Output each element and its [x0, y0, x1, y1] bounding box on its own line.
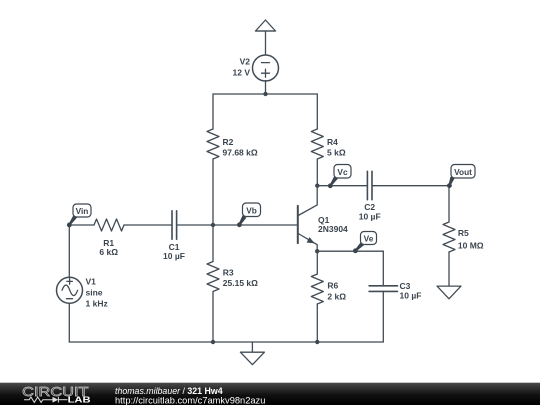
wire R3 top lead: [212, 225, 214, 262]
capacitor C3: [369, 286, 397, 292]
resistor R6: [311, 274, 323, 304]
resistor R3: [207, 262, 219, 292]
wire C3 top lead: [382, 251, 384, 286]
wire R4 bottom lead: [316, 159, 318, 186]
wire left rail bottom: [68, 303, 70, 342]
wire R5 bottom lead: [448, 252, 450, 286]
wire R6 bottom lead: [316, 304, 318, 342]
label Q1 value: [318, 215, 348, 234]
svg-text:5 kΩ: 5 kΩ: [327, 147, 346, 157]
voltage source V1: [57, 277, 83, 303]
label R5 value: [458, 228, 484, 250]
svg-text:V1: V1: [86, 277, 97, 287]
voltage source V2: [253, 55, 279, 81]
wire R6 top lead: [316, 251, 318, 274]
label V2 value: [233, 56, 251, 77]
wire R2 top lead: [212, 94, 214, 129]
wire R1 to C1: [124, 224, 172, 226]
label C2 value: [359, 202, 381, 221]
svg-text:25.15 kΩ: 25.15 kΩ: [223, 278, 258, 288]
wire C3 bottom lead: [382, 291, 384, 342]
svg-text:12 V: 12 V: [233, 67, 251, 77]
wire top rail: [213, 93, 317, 95]
svg-text:6 kΩ: 6 kΩ: [99, 247, 118, 257]
resistor R1: [94, 219, 124, 231]
svg-text:1 kHz: 1 kHz: [86, 299, 108, 309]
svg-text:LAB: LAB: [68, 396, 91, 405]
svg-text:2N3904: 2N3904: [318, 224, 348, 234]
svg-text:10 µF: 10 µF: [400, 291, 422, 301]
node flag Vin: [67, 204, 91, 227]
label R1 value: [99, 238, 118, 257]
svg-text:2 kΩ: 2 kΩ: [327, 292, 346, 302]
label C3 value: [400, 281, 422, 301]
svg-text:10 MΩ: 10 MΩ: [458, 240, 484, 250]
wire bottom rail: [69, 341, 383, 343]
wire V2 to top rail: [265, 81, 267, 95]
svg-text:Ve: Ve: [364, 233, 374, 243]
label R6 value: [327, 280, 346, 301]
wire C2 to Vout: [372, 185, 449, 187]
wire Ve rail: [317, 250, 383, 252]
resistor R4: [311, 129, 323, 159]
svg-text:10 µF: 10 µF: [163, 251, 185, 261]
node junction bottom R3: [211, 340, 215, 344]
svg-text:97.68 kΩ: 97.68 kΩ: [223, 147, 258, 157]
svg-text:sine: sine: [86, 288, 103, 298]
svg-text:Vb: Vb: [246, 205, 257, 215]
label R4 value: [327, 137, 346, 157]
label R2 value: [223, 137, 258, 157]
wire Vc to C2: [317, 185, 367, 187]
wire R2 bottom lead: [212, 159, 214, 225]
resistor R2: [207, 129, 219, 159]
label C1 value: [163, 242, 185, 261]
wire base node to R1: [69, 224, 94, 226]
svg-text:V2: V2: [240, 56, 251, 66]
ground bottom: [240, 342, 264, 365]
svg-text:Vc: Vc: [337, 167, 348, 177]
node junction base: [211, 223, 215, 227]
node junction top: [263, 92, 267, 96]
wire left rail top: [68, 225, 70, 277]
node junction Ve: [315, 249, 319, 253]
wire R3 bottom lead: [212, 292, 214, 343]
node flag Ve: [353, 232, 377, 254]
svg-text:Vout: Vout: [454, 167, 472, 177]
svg-text:C3: C3: [400, 281, 411, 291]
svg-text:R5: R5: [458, 228, 469, 238]
footer bar: [0, 383, 540, 405]
transistor Q1: [298, 186, 317, 252]
power flag V+: [256, 20, 276, 56]
CircuitLab logo squiggle: [24, 397, 67, 403]
node flag Vb: [237, 203, 261, 227]
svg-text:10 µF: 10 µF: [359, 212, 381, 222]
node junction Vout: [447, 184, 451, 188]
svg-text:http://circuitlab.com/c7amkv98: http://circuitlab.com/c7amkv98n2azu: [115, 396, 265, 405]
label R3 value: [223, 268, 258, 288]
resistor R5: [443, 222, 455, 252]
svg-text:R3: R3: [223, 268, 234, 278]
wire R5 top lead: [448, 186, 450, 222]
node junction Vc: [315, 184, 319, 188]
svg-text:R4: R4: [327, 137, 338, 147]
ground under R5: [437, 286, 461, 299]
svg-text:thomas.milbauer / 321 Hw4: thomas.milbauer / 321 Hw4: [115, 386, 223, 396]
node flag Vc: [328, 165, 351, 189]
label V1 value: [86, 277, 108, 309]
node flag Vout: [447, 165, 475, 189]
capacitor C2: [367, 171, 372, 199]
wire R4 top lead: [316, 94, 318, 129]
node junction bottom R6: [315, 340, 319, 344]
svg-text:Vin: Vin: [76, 206, 89, 216]
wire C1 to base: [177, 224, 297, 226]
svg-text:R2: R2: [223, 137, 234, 147]
svg-text:R6: R6: [327, 280, 338, 290]
capacitor C1: [172, 211, 177, 239]
